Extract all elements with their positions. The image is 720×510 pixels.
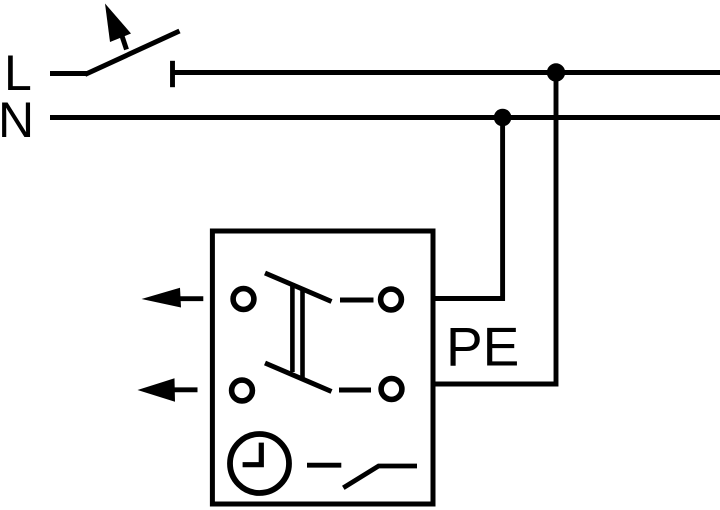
wire L stub from label xyxy=(50,71,87,76)
wire from L junction down to unit xyxy=(435,73,556,385)
switch S1 fixed contact tick xyxy=(170,61,175,87)
contact lever bottom pole xyxy=(265,363,332,392)
contact lever top pole xyxy=(265,273,332,302)
terminal circle top-left xyxy=(233,289,254,310)
switch S1 actuation arrow tail xyxy=(121,33,127,50)
terminal circle top-right xyxy=(381,289,402,310)
linkage bar right xyxy=(300,291,305,380)
clock symbol circle xyxy=(230,434,289,493)
unit box (fan timer unit) xyxy=(212,231,433,504)
switch S1 lever (open contact in L line) xyxy=(85,31,180,75)
contact stub bottom pole xyxy=(339,388,371,393)
output arrow bottom head xyxy=(138,378,176,401)
linkage bar left xyxy=(290,283,295,372)
svg-text:PE: PE xyxy=(446,316,519,378)
output arrow top shaft xyxy=(176,296,203,301)
timer contact stub xyxy=(307,463,341,468)
terminal circle bottom-right xyxy=(381,379,402,400)
output arrow top head xyxy=(142,288,182,308)
junction dot on N line xyxy=(494,109,512,127)
svg-text:N: N xyxy=(0,92,34,148)
junction dot on L line xyxy=(547,63,565,81)
clock symbol hands xyxy=(243,443,262,465)
wire N main line xyxy=(50,115,720,120)
wire L main line xyxy=(173,70,720,75)
terminal circle bottom-left xyxy=(232,380,253,401)
output arrow bottom shaft xyxy=(171,387,198,392)
contact stub top pole xyxy=(340,298,374,303)
wire from N junction down to unit xyxy=(435,118,503,299)
switch S1 actuation arrow head xyxy=(105,4,131,43)
timer contact lever xyxy=(343,466,417,488)
